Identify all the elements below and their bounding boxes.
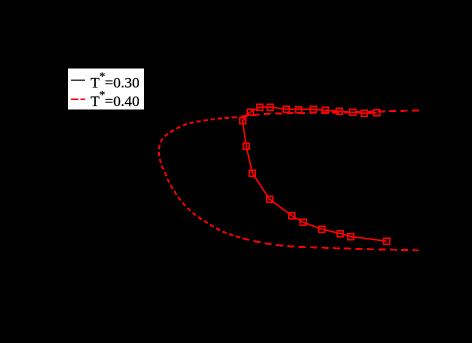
svg-text:=0.30: =0.30 [105, 76, 140, 92]
svg-text:=0.40: =0.40 [105, 94, 140, 110]
